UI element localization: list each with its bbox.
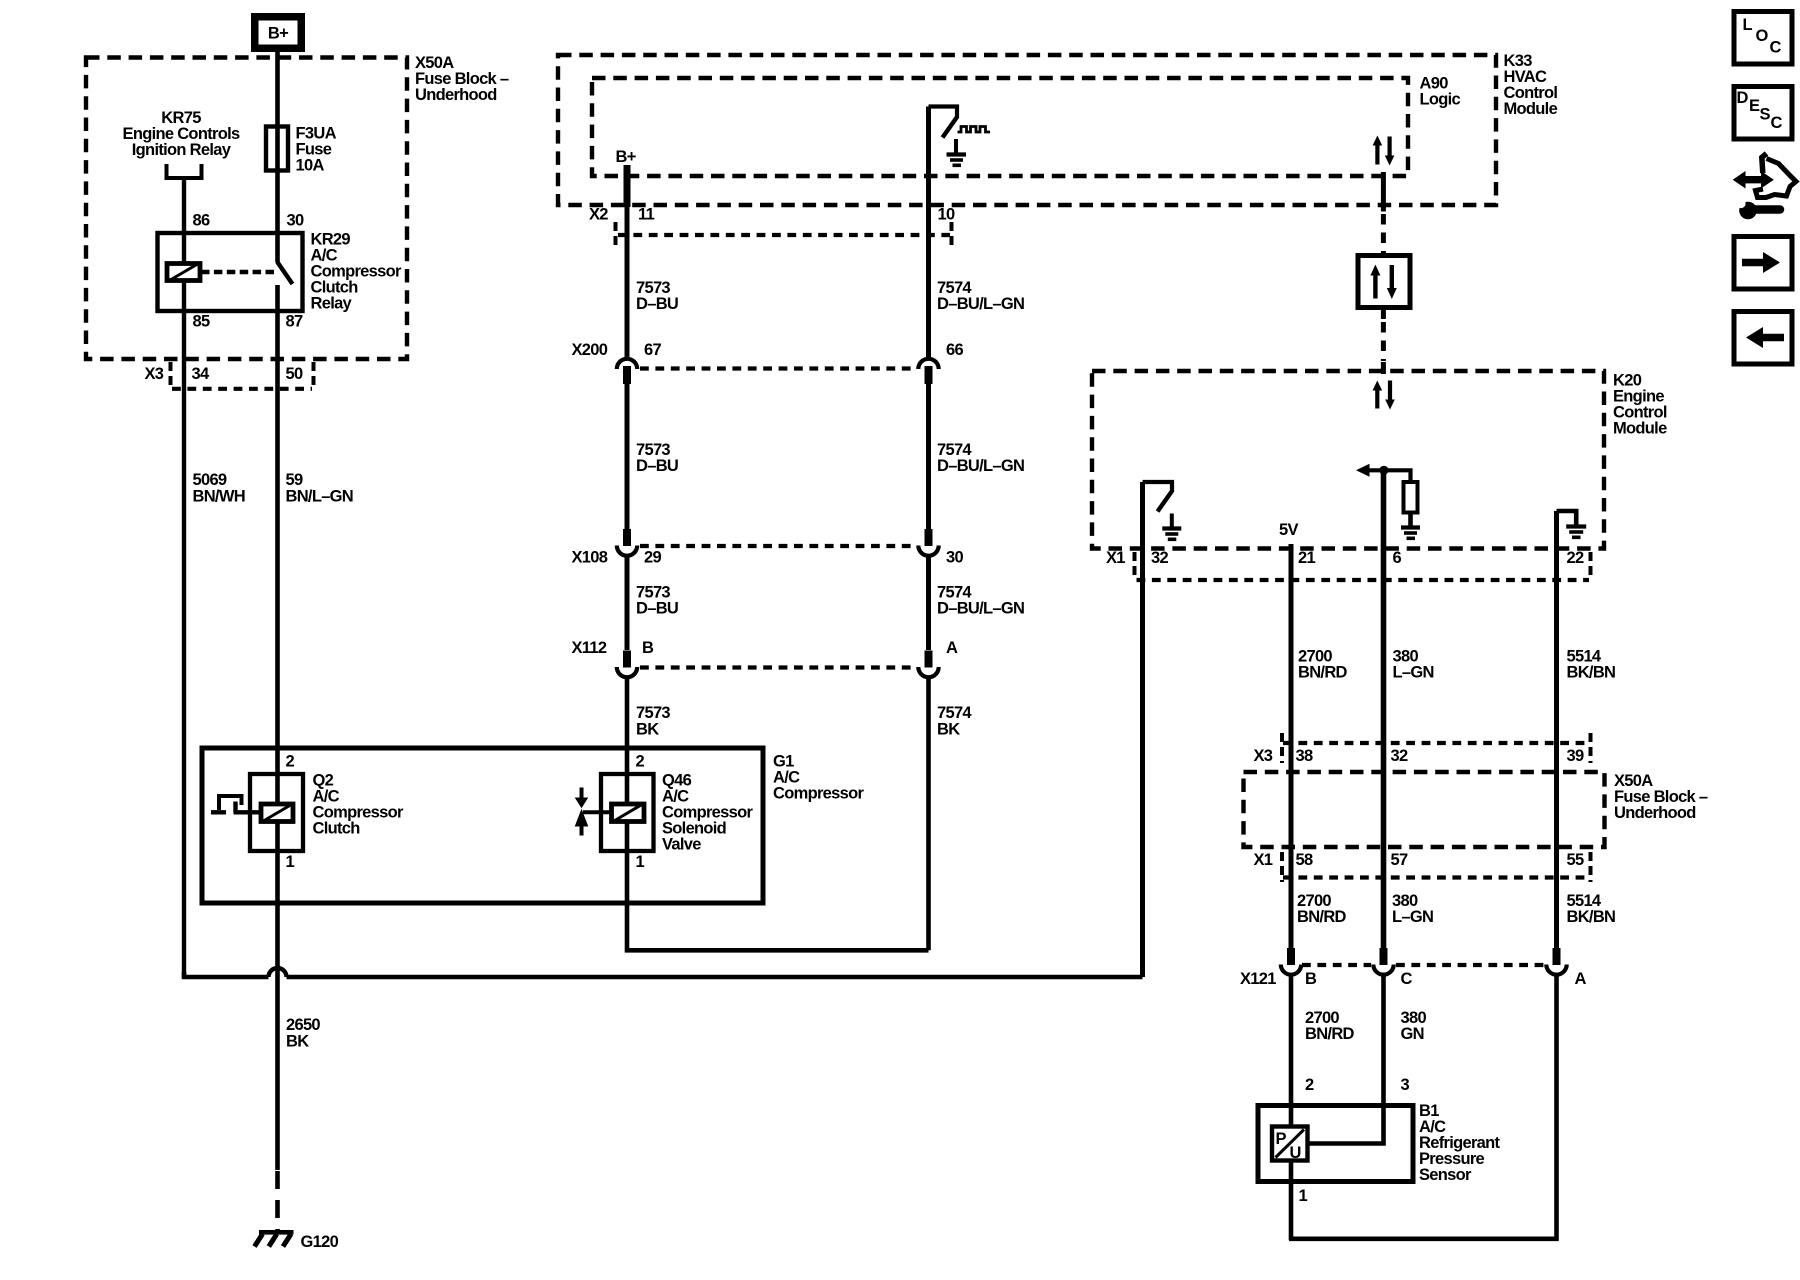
svg-text:L–GN: L–GN (1393, 664, 1434, 682)
svg-text:5069: 5069 (193, 471, 227, 489)
engine control module K20 dashed box (1092, 371, 1604, 549)
svg-text:B+: B+ (616, 148, 636, 166)
svg-text:S: S (1760, 106, 1771, 124)
wire switch output down (926, 107, 931, 360)
relay coil (167, 264, 200, 281)
wire 380 GN to sensor pin 3 (1308, 974, 1384, 1144)
ground symbol inside A90 (954, 139, 958, 154)
svg-text:X1: X1 (1254, 851, 1273, 869)
svg-text:Compressor: Compressor (773, 785, 864, 803)
svg-text:1: 1 (636, 853, 645, 871)
ground wire run from X3-34 to K20 X1-32 with hop over 2650 (184, 972, 1143, 977)
svg-text:BK/BN: BK/BN (1567, 664, 1616, 682)
svg-text:D–BU/L–GN: D–BU/L–GN (937, 600, 1024, 618)
wire 7574 from X112 A down to loop (926, 677, 931, 950)
relay switch blade (277, 262, 293, 285)
svg-text:30: 30 (287, 212, 304, 230)
svg-text:67: 67 (644, 341, 661, 359)
serial data arrows in A90 (1375, 144, 1379, 165)
svg-text:85: 85 (193, 313, 210, 331)
serial data bus box (1358, 256, 1410, 308)
svg-text:O: O (1756, 27, 1769, 45)
svg-text:87: 87 (286, 313, 303, 331)
wire 2700 BN/RD to sensor pin 2 (1289, 974, 1294, 1127)
svg-text:2650: 2650 (286, 1016, 320, 1034)
wire relay pin 85 down (182, 281, 186, 977)
wire 2650 dashed tail to G120 (275, 1171, 280, 1231)
svg-text:BK/BN: BK/BN (1567, 908, 1616, 926)
wire Q2 pin1 down (2650) (275, 822, 280, 1171)
pressure sensor B1 box (1258, 1106, 1413, 1182)
svg-text:BK: BK (636, 721, 659, 739)
svg-text:D–BU/L–GN: D–BU/L–GN (937, 295, 1024, 313)
svg-text:D–BU: D–BU (636, 600, 678, 618)
svg-text:2: 2 (1305, 1076, 1314, 1094)
svg-text:39: 39 (1567, 747, 1584, 765)
svg-text:C: C (1770, 39, 1782, 57)
svg-text:29: 29 (644, 549, 661, 567)
svg-text:B: B (1305, 970, 1317, 988)
svg-text:X108: X108 (572, 549, 608, 567)
svg-text:10A: 10A (296, 157, 325, 175)
P/U transducer symbol (1272, 1127, 1308, 1161)
svg-text:58: 58 (1296, 851, 1313, 869)
svg-text:57: 57 (1391, 851, 1408, 869)
svg-text:X121: X121 (1240, 970, 1276, 988)
svg-text:BN/RD: BN/RD (1297, 908, 1347, 926)
back nav box (1734, 312, 1792, 365)
HVAC control module K33 dashed box (558, 55, 1496, 205)
connector terminal X108-30 (925, 529, 933, 546)
svg-text:A: A (946, 639, 958, 657)
component-view icon (double arrow, outline, wrench) (1733, 154, 1796, 220)
svg-text:Logic: Logic (1420, 91, 1461, 109)
svg-text:L: L (1743, 16, 1753, 34)
connector terminal X112-B (623, 651, 631, 668)
svg-text:D–BU/L–GN: D–BU/L–GN (937, 457, 1024, 475)
svg-text:D–BU: D–BU (636, 295, 678, 313)
svg-text:Module: Module (1504, 100, 1558, 118)
svg-text:B: B (642, 639, 654, 657)
svg-text:22: 22 (1567, 549, 1584, 567)
svg-text:BN/L–GN: BN/L–GN (286, 488, 354, 506)
svg-text:86: 86 (193, 212, 210, 230)
svg-text:Relay: Relay (311, 295, 353, 313)
relay actuation dashed link (201, 270, 276, 275)
svg-text:50: 50 (286, 365, 303, 383)
valve symbol arrows (580, 788, 584, 799)
serial data arrows in K20 (1375, 389, 1379, 409)
svg-text:E: E (1749, 97, 1760, 115)
wire K20 pin 21 (5V) down (1289, 544, 1294, 948)
solenoid valve Q46 box (601, 774, 654, 851)
connector X108 row (640, 544, 916, 548)
wire K20 pin 22 down (1554, 511, 1559, 948)
pullup: junction, arrow, resistor to ground (1368, 470, 1411, 482)
svg-text:Underhood: Underhood (415, 86, 497, 104)
svg-text:C: C (1771, 114, 1783, 132)
wire relay pin 87 down to Q2 (275, 285, 280, 804)
serial data wire K33 to bus box (1381, 172, 1386, 212)
connector terminal X112-A (925, 651, 933, 668)
wire 7573 seg2 (625, 384, 630, 530)
compressor G1 box (202, 748, 763, 903)
svg-text:P: P (1276, 1130, 1287, 1148)
svg-text:Valve: Valve (662, 836, 701, 854)
svg-text:L–GN: L–GN (1392, 908, 1433, 926)
LOC nav box (1734, 12, 1792, 65)
svg-text:X1: X1 (1106, 549, 1125, 567)
wire Q46 pin1 down and right to 7574 (627, 822, 929, 951)
wire 7574 seg3 (926, 554, 931, 650)
connector terminal X121-A (1553, 948, 1561, 965)
svg-text:1: 1 (1299, 1187, 1308, 1205)
wire 7573 BK seg to Q46 (625, 676, 630, 806)
svg-text:Ignition Relay: Ignition Relay (132, 141, 232, 159)
logic A90 dashed box (592, 78, 1408, 176)
KR75 continuation bracket (167, 164, 202, 178)
Q46 coil (612, 804, 645, 822)
svg-text:B+: B+ (268, 25, 288, 43)
serial data wire bus box to K20 (1381, 308, 1386, 320)
wire 5514 BK/BN to sensor pin 1 (1289, 974, 1557, 1239)
forward nav box (1734, 237, 1792, 290)
svg-text:BK: BK (937, 721, 960, 739)
relay KR29 box (158, 233, 303, 311)
PWM signal symbol (958, 127, 991, 133)
svg-text:Underhood: Underhood (1614, 804, 1696, 822)
svg-text:BN/RD: BN/RD (1305, 1025, 1355, 1043)
B+ power symbol (251, 13, 305, 52)
svg-text:Sensor: Sensor (1419, 1166, 1472, 1184)
wire 7573 seg3 (625, 554, 630, 650)
svg-text:C: C (1401, 970, 1413, 988)
driver switch to ground inside A90 (929, 107, 958, 119)
svg-text:X200: X200 (572, 341, 608, 359)
svg-text:34: 34 (192, 365, 210, 383)
wire K20 pin 32 down to ground run (1140, 482, 1145, 977)
wire B+ feed down to relay pin 30 (275, 52, 280, 262)
connector terminal X200-66 (918, 359, 938, 369)
wire KR75 to relay pin 86 (182, 178, 186, 264)
svg-text:A: A (1575, 970, 1587, 988)
svg-text:32: 32 (1391, 747, 1408, 765)
svg-text:BN/RD: BN/RD (1298, 664, 1348, 682)
arrows in bus box (1373, 274, 1377, 299)
ground symbol under switch (1170, 514, 1174, 529)
wire K20 pin 6 down (1381, 470, 1387, 948)
svg-text:U: U (1290, 1144, 1301, 1162)
A/C request switch in K20 (1143, 482, 1173, 492)
svg-text:59: 59 (286, 471, 303, 489)
svg-text:55: 55 (1567, 851, 1584, 869)
fuse F3UA 10A (266, 127, 288, 171)
svg-text:Clutch: Clutch (313, 820, 361, 838)
svg-text:11: 11 (638, 206, 655, 224)
svg-text:BK: BK (286, 1033, 309, 1051)
svg-text:66: 66 (946, 341, 963, 359)
svg-text:7574: 7574 (937, 704, 972, 722)
svg-text:32: 32 (1151, 549, 1168, 567)
connector terminal X200-67 (617, 359, 637, 369)
svg-text:X2: X2 (589, 206, 608, 224)
connector terminal X108-29 (623, 529, 631, 546)
wire sensor pin1 down to corner (1289, 1161, 1294, 1241)
svg-text:X112: X112 (572, 639, 607, 657)
right ground in K20 (1557, 511, 1577, 526)
svg-text:X3: X3 (1254, 747, 1273, 765)
svg-text:X3: X3 (145, 365, 164, 383)
fuse block X50A dashed box (right) (1244, 772, 1605, 847)
wire B+ output down (624, 165, 631, 207)
ground G120 symbol (259, 1230, 294, 1235)
svg-text:GN: GN (1401, 1025, 1424, 1043)
DESC nav box (1734, 87, 1792, 140)
svg-text:30: 30 (946, 549, 963, 567)
svg-text:21: 21 (1298, 549, 1315, 567)
svg-text:1: 1 (286, 853, 295, 871)
fuse block X50A dashed box (86, 58, 407, 360)
connector terminal X121-C (1380, 948, 1388, 965)
svg-text:D: D (1737, 89, 1749, 107)
svg-text:38: 38 (1296, 747, 1313, 765)
svg-text:2: 2 (636, 753, 645, 771)
svg-text:6: 6 (1393, 549, 1402, 567)
svg-text:G120: G120 (301, 1233, 339, 1251)
svg-text:3: 3 (1401, 1076, 1410, 1094)
svg-text:D–BU: D–BU (636, 457, 678, 475)
clutch mechanical symbol (211, 810, 226, 814)
connector terminal X121-B (1287, 948, 1295, 965)
svg-text:7573: 7573 (636, 704, 670, 722)
connector X3 row (fuse block right) (1283, 741, 1589, 745)
Q2 coil (261, 804, 293, 822)
svg-text:10: 10 (938, 206, 955, 224)
svg-text:BN/WH: BN/WH (193, 488, 245, 506)
svg-text:Module: Module (1613, 420, 1667, 438)
clutch Q2 box (250, 774, 303, 851)
svg-text:2: 2 (286, 753, 295, 771)
wire 7574 seg2 (926, 384, 931, 530)
svg-text:5V: 5V (1279, 521, 1298, 539)
